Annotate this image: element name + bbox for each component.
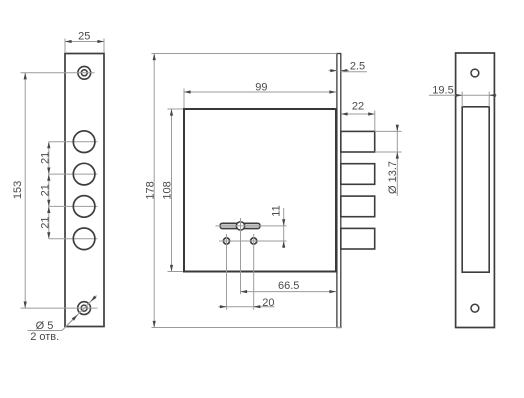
dim 20 arrow right: [254, 306, 261, 308]
dim 19.5 extension right: [488, 92, 490, 107]
dim 99 extension left: [183, 89, 185, 109]
svg-text:153: 153: [12, 181, 24, 199]
dim 22 extension right: [374, 111, 376, 131]
svg-text:25: 25: [78, 30, 90, 42]
fixing hole right: [251, 238, 257, 244]
dim 2.5 arrow left: [329, 70, 337, 72]
svg-text:108: 108: [161, 181, 173, 199]
svg-text:22: 22: [352, 100, 364, 112]
hole centerline circle4: [49, 238, 98, 240]
dim 99 line: [184, 91, 336, 93]
dim 20 line: [219, 306, 275, 308]
svg-text:19.5: 19.5: [432, 85, 453, 97]
bolt hole 3: [73, 196, 95, 218]
strike screw bottom: [471, 304, 479, 312]
bolt hole 1: [73, 131, 95, 153]
dim 19.5 arrow left: [456, 94, 462, 96]
svg-text:66.5: 66.5: [278, 280, 299, 292]
strike plate cutout: [462, 107, 489, 272]
fixing holes centerline: [219, 240, 287, 242]
dim 25 extension lines: [64, 39, 66, 54]
svg-text:2 отв.: 2 отв.: [30, 331, 59, 343]
faceplate outline: [65, 54, 104, 327]
dim 178 line: [153, 54, 155, 328]
svg-text:178: 178: [144, 181, 156, 199]
bolt hole 2: [73, 163, 95, 185]
keyhole horizontal centerline: [216, 225, 287, 227]
svg-text:Ø 13.7: Ø 13.7: [387, 161, 399, 194]
dim 20 arrow left: [220, 306, 227, 308]
dim 108 extension bottom: [168, 271, 184, 273]
dim 19.5 extension left: [461, 92, 463, 107]
dim 108 line: [171, 109, 173, 272]
faceplate strip edge-on: [337, 54, 341, 328]
bolt hole 4: [73, 228, 95, 250]
dim 13.7 extension top: [375, 130, 402, 132]
fixing hole left: [223, 238, 229, 244]
dim 21 segment 3: [48, 206, 50, 238]
lock body outline: [184, 109, 336, 272]
dim 21 segment 2: [48, 174, 50, 206]
dim 153 line: [24, 73, 26, 308]
svg-text:21: 21: [39, 152, 51, 164]
svg-text:20: 20: [262, 297, 274, 309]
dim 2.5 arrow right: [341, 70, 349, 72]
dim 19.5 arrow right: [489, 94, 495, 96]
fixing hole left centerline vertical: [226, 234, 228, 310]
leader arrow lower: [66, 315, 78, 327]
dim 25 line: [65, 41, 104, 43]
dim 178 extension bottom: [152, 327, 343, 329]
keyhole center circle: [236, 222, 244, 230]
dim 2.5 underline: [341, 71, 367, 73]
bolt 3: [341, 196, 375, 217]
fixing hole right centerline vertical: [253, 234, 255, 310]
strike plate outline: [456, 53, 495, 328]
dim 13.7 extension bottom: [375, 151, 402, 153]
dim 153 extension bottom: [21, 307, 98, 309]
dim 22 line: [341, 113, 375, 115]
svg-text:2.5: 2.5: [350, 60, 365, 72]
bolt 2: [341, 164, 375, 185]
top screw hole: [78, 66, 91, 79]
leader arrow upper: [91, 296, 97, 302]
svg-text:21: 21: [39, 216, 51, 228]
dim 11 line: [283, 208, 285, 247]
bottom screw hole: [78, 302, 91, 315]
dim 108 extension top: [168, 108, 184, 110]
dim 11 arrow bottom: [283, 241, 285, 248]
keyhole slot: [220, 223, 260, 228]
hole centerline circle1: [49, 141, 98, 143]
dim 21 segment 1: [48, 142, 50, 174]
strike screw top: [471, 69, 479, 77]
dim 13.7 arrow bottom: [396, 152, 398, 159]
svg-text:11: 11: [271, 205, 283, 216]
svg-text:99: 99: [255, 81, 267, 93]
hole centerline circle2: [49, 173, 98, 175]
bolt 4: [341, 228, 375, 249]
leader underline: [28, 330, 63, 332]
svg-text:21: 21: [39, 184, 51, 196]
dim 11 arrow top: [283, 219, 285, 226]
leader diameter 5 line: [62, 296, 97, 331]
dim 153 extension top: [21, 72, 95, 74]
bolt 1: [341, 131, 375, 152]
hole centerline circle3: [49, 205, 98, 207]
dim 178 extension top: [152, 53, 337, 55]
dim 66.5 line: [241, 291, 337, 293]
keyhole vertical centerline: [240, 218, 242, 294]
dim 13.7 arrow top: [396, 125, 398, 132]
dim 13.7 line: [396, 125, 398, 197]
dim 19.5 line: [429, 94, 497, 96]
